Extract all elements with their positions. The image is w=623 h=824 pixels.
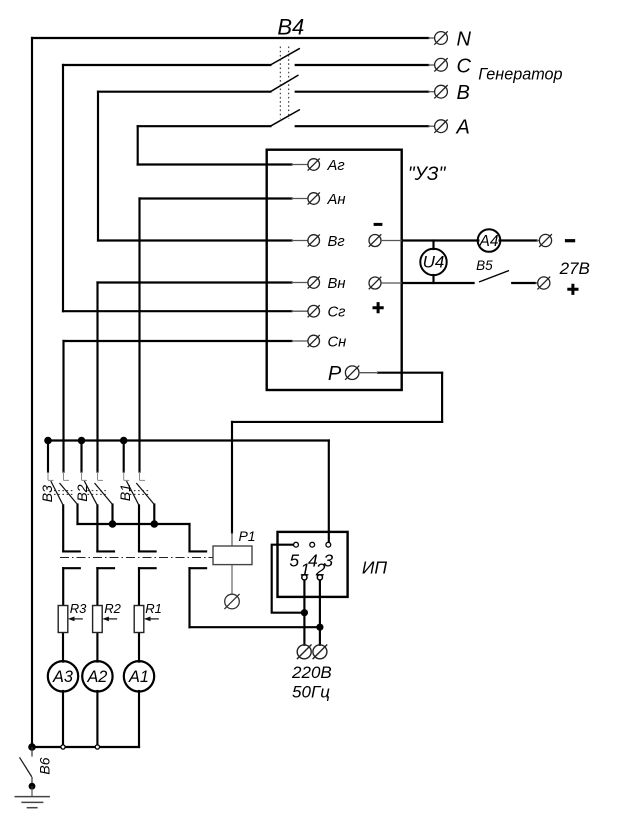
svg-text:Вн: Вн	[328, 276, 346, 292]
switch B4 blade pole A	[270, 110, 300, 127]
resistor R2	[93, 606, 103, 633]
svg-text:В1: В1	[117, 484, 133, 501]
wire B5 to plus terminal	[512, 282, 535, 284]
wire B4 pole B output to terminal B	[296, 91, 429, 93]
switch B5 blade	[479, 271, 509, 283]
wire Vg lead	[98, 239, 292, 241]
svg-text:U4: U4	[423, 253, 445, 272]
junction dot B6 ground	[29, 783, 36, 790]
ammeter A2	[82, 661, 112, 691]
wire contact 2 to R2	[96, 568, 98, 605]
switch B1 blade pole1	[127, 481, 140, 505]
wire B1 pole1 output down to contact 3	[138, 505, 140, 551]
wire contact 3 bottom bar	[139, 567, 156, 569]
wire contact 4 top bar	[190, 550, 207, 552]
wire contact 4 down	[188, 568, 190, 627]
wire A2 down to bottom rail	[96, 691, 98, 747]
wire contact 2 bottom bar	[97, 567, 114, 569]
junction rail dot B1	[151, 520, 159, 528]
wire B3 pole2 output down	[76, 505, 78, 525]
switch B3 linkage dotted	[54, 491, 73, 495]
terminal Cn	[292, 335, 320, 347]
wire U4 bottom stub	[432, 275, 434, 283]
wire phase C horizontal to B4	[63, 64, 270, 66]
terminal UZ minus output	[369, 234, 402, 247]
svg-text:Сг: Сг	[328, 305, 346, 321]
pin 3 of IP	[326, 542, 331, 547]
terminal below P1	[224, 594, 239, 609]
svg-text:220В: 220В	[291, 663, 332, 682]
junction dot pin2 node	[316, 624, 323, 631]
svg-text:В4: В4	[277, 15, 304, 40]
label plus UZ	[373, 302, 384, 313]
ammeter A3	[48, 661, 78, 691]
terminal 27V minus	[537, 234, 552, 247]
wire phase C vertical down to Cg	[62, 65, 64, 311]
junction bus dot 1	[44, 437, 52, 445]
wire P1 coil bottom lead	[231, 564, 233, 594]
wire N vertical left main	[31, 38, 33, 747]
wire relay P1 coil feed down	[231, 422, 233, 533]
svg-text:R2: R2	[104, 601, 121, 616]
terminal N	[428, 31, 448, 44]
switch B4 three-pole	[270, 48, 300, 126]
resistor R3	[58, 606, 68, 633]
wire IP pin1 down to mains terminal	[303, 580, 305, 645]
wire An lead	[140, 197, 292, 199]
wire B3 left pole from bus	[47, 441, 49, 472]
wire relay P1 coil feed thin lead	[231, 533, 233, 547]
wire contact 2 top bar	[97, 550, 114, 552]
wire collector rail of pole2 outputs	[78, 523, 190, 525]
switch B2 blade pole2	[95, 483, 113, 505]
switch B2 details	[82, 472, 104, 481]
wire A4 to minus terminal	[500, 239, 537, 241]
svg-text:Вг: Вг	[328, 234, 345, 250]
box UZ unit	[267, 150, 402, 390]
terminal Vn	[292, 276, 320, 288]
wire phase B horizontal to B4	[98, 91, 270, 93]
wire contact 1 bottom bar	[63, 567, 80, 569]
label plus 27V	[567, 284, 578, 295]
svg-text:В3: В3	[39, 485, 55, 502]
wire N line horizontal	[32, 37, 428, 39]
resistor R3 adjust arrow	[72, 618, 83, 620]
terminal B	[428, 85, 448, 98]
svg-text:В6: В6	[36, 757, 52, 774]
wire main neutral bus	[48, 439, 329, 441]
switch B4 linkage dotted lines	[280, 47, 288, 119]
wire phase B vertical down to Vg	[97, 92, 99, 241]
junction bus dot 2	[78, 437, 86, 445]
wire minus output from UZ to A4	[402, 239, 479, 241]
junction bus dot 3	[120, 437, 128, 445]
wire bus down to IP pin 3	[328, 441, 330, 542]
relay P1 coil box	[213, 546, 252, 565]
wire B2 pole1 output down to contact 2	[96, 505, 98, 551]
terminal mains 1	[297, 645, 312, 660]
terminal Ag	[292, 158, 320, 170]
wire Cn vertical down to B3	[62, 341, 64, 472]
wire rail down to contact 4	[188, 524, 190, 551]
switch B6 top lead	[31, 747, 33, 757]
resistor R1	[134, 606, 144, 633]
wire R3 to ammeter A3	[62, 633, 64, 662]
switch B1 blade pole2	[136, 483, 154, 505]
switch B2 linkage dotted	[88, 491, 107, 495]
svg-text:50Гц: 50Гц	[292, 683, 330, 702]
svg-text:B: B	[457, 82, 470, 104]
wire P output right	[378, 372, 442, 374]
svg-text:Ан: Ан	[327, 192, 346, 208]
wire R2 to ammeter A2	[96, 633, 98, 662]
svg-text:1: 1	[300, 560, 310, 580]
switch B6 bottom lead	[31, 777, 33, 786]
voltmeter U4	[420, 249, 446, 275]
switch B6 blade	[20, 757, 32, 777]
wire B1 pole2 output down	[153, 505, 155, 525]
svg-text:R3: R3	[70, 601, 87, 616]
svg-text:А1: А1	[128, 668, 149, 686]
svg-text:Р1: Р1	[238, 528, 255, 544]
wire IP pin5 jumper	[272, 545, 302, 613]
pin 4 of IP	[310, 542, 315, 547]
wire A1 down to bottom rail	[138, 691, 140, 747]
switch B3 blade pole1	[51, 481, 63, 505]
ammeter A4	[478, 229, 501, 252]
wire B1 left pole from bus	[123, 441, 125, 472]
wire phase A vertical down to Ag	[137, 126, 139, 164]
terminal Vg	[292, 234, 320, 246]
svg-text:ИП: ИП	[362, 558, 388, 578]
svg-text:А4: А4	[479, 233, 499, 250]
svg-text:В5: В5	[476, 258, 493, 273]
wire An vertical down to B1	[138, 199, 140, 472]
wire U4 top stub	[432, 241, 434, 250]
svg-text:Аг: Аг	[327, 158, 345, 174]
svg-text:C: C	[457, 56, 472, 78]
wire Cg lead	[63, 310, 292, 312]
switch B2 blade pole1	[84, 481, 97, 505]
wire IP pin2 down to mains terminal	[319, 580, 321, 645]
wire contact 1 top bar	[63, 550, 80, 552]
terminal 27V plus	[535, 277, 550, 290]
wire Ag lead	[138, 163, 292, 165]
wire P output down	[441, 373, 443, 422]
svg-text:Генератор: Генератор	[478, 66, 562, 84]
wire contact 3 top bar	[139, 550, 156, 552]
wire P output left to relay P1	[232, 421, 442, 423]
svg-text:27В: 27В	[559, 259, 590, 278]
svg-text:R1: R1	[145, 601, 162, 616]
ammeter A1	[124, 661, 154, 691]
relay P1 linkage dash-dot line	[60, 557, 213, 559]
switch B3 details	[48, 472, 69, 481]
wire B4 pole A output to terminal A	[296, 125, 429, 127]
junction dot pin5-pin1	[301, 609, 308, 616]
switch B1 linkage dotted	[130, 491, 149, 495]
wire Cn lead	[64, 340, 292, 342]
svg-text:А2: А2	[86, 668, 107, 686]
wire contact 3 to R1	[138, 568, 140, 605]
wire B4 pole C output to terminal C	[296, 64, 429, 66]
svg-text:В2: В2	[74, 484, 90, 501]
svg-text:А3: А3	[52, 668, 73, 686]
wire Vn lead	[98, 281, 292, 283]
wire A3 down to bottom rail	[62, 691, 64, 747]
junction circle A3 rail	[61, 745, 65, 749]
svg-text:A: A	[456, 117, 470, 139]
terminal C	[428, 58, 448, 71]
pin 1 of IP	[302, 575, 307, 580]
junction rail dot B2	[109, 520, 117, 528]
wire B2 left pole from bus	[80, 441, 82, 472]
terminal A	[428, 120, 448, 133]
terminal mains 2	[313, 645, 328, 660]
switch B4 blade pole B	[270, 75, 298, 92]
svg-text:"УЗ": "УЗ"	[408, 164, 447, 185]
pin 5 of IP	[294, 542, 299, 547]
svg-text:5: 5	[289, 551, 299, 571]
terminal Cg	[292, 305, 320, 317]
label minus UZ	[374, 223, 383, 226]
svg-text:Сн: Сн	[328, 334, 347, 350]
switch B1 details	[124, 472, 145, 481]
wire R1 to ammeter A1	[138, 633, 140, 662]
wire Vn vertical down to B2	[96, 283, 98, 472]
switch B4 blade pole C	[270, 48, 300, 65]
svg-text:2: 2	[315, 560, 326, 580]
resistor R1 adjust arrow	[148, 618, 159, 620]
wire B2 pole2 output down	[111, 505, 113, 525]
switch B3 blade pole2	[60, 483, 78, 505]
wire contact 4 to IP pin2 node	[190, 626, 320, 628]
label minus 27V	[565, 239, 575, 242]
wire plus output from UZ to B5	[402, 282, 474, 284]
svg-text:N: N	[457, 29, 472, 51]
svg-text:Р: Р	[328, 363, 342, 385]
box IP power-supply unit	[278, 532, 348, 597]
wire contact 1 to R3	[62, 568, 64, 605]
resistor R2 adjust arrow	[106, 618, 117, 620]
wire bottom rail	[32, 746, 139, 748]
ground symbol	[15, 786, 50, 808]
pin 2 of IP	[317, 575, 322, 580]
wire contact 4 bottom bar	[190, 567, 207, 569]
wire B3 pole1 output down to contact 1	[62, 505, 64, 551]
terminal P	[345, 366, 378, 380]
junction circle A2 rail	[95, 745, 99, 749]
terminal An	[292, 192, 320, 204]
terminal UZ plus output	[369, 277, 402, 290]
junction dot bottom rail left	[28, 743, 36, 751]
wire phase A horizontal to B4	[138, 125, 271, 127]
